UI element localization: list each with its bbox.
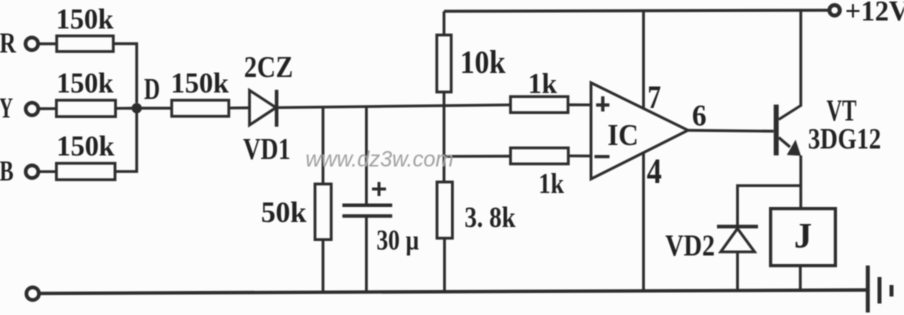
resistor R4 150k (series) — [172, 100, 229, 116]
wire pin 7 (V+ supply) — [642, 11, 645, 109]
ground symbol — [866, 266, 870, 313]
wire R4 to VD1 anode — [229, 106, 250, 109]
+12V top rail wire — [444, 10, 829, 11]
svg-text:150k: 150k — [57, 67, 115, 99]
wire R3 to bus — [115, 113, 137, 172]
svg-text:1k: 1k — [528, 68, 558, 100]
wire Y terminal to R2 — [38, 107, 56, 110]
transistor Q1 base bar — [774, 105, 779, 156]
wire capacitor bottom lead — [365, 216, 368, 292]
input terminal B — [26, 165, 39, 178]
capacitor C1 30u electrolytic — [342, 204, 392, 208]
resistor R9 1k (inverting input) — [511, 148, 569, 164]
svg-text:D: D — [144, 71, 160, 106]
wire emitter node to VD2 cathode branch — [738, 186, 801, 226]
diode VD1 2CZ — [250, 90, 277, 125]
resistor R7 3.8k — [437, 182, 452, 238]
op-amp minus input symbol — [595, 155, 610, 158]
wire capacitor top lead — [365, 107, 368, 206]
svg-text:4: 4 — [647, 151, 662, 191]
svg-text:IC: IC — [608, 117, 639, 152]
ground rail terminal (bottom left) — [26, 287, 39, 300]
+12V terminal — [829, 5, 839, 15]
ground rail wire — [39, 290, 866, 293]
resistor R3 150k (B input) — [56, 163, 115, 179]
wire 50k top lead — [322, 107, 325, 184]
resistor R5 50k — [315, 184, 331, 240]
wire R8 to op-amp + input — [568, 103, 591, 106]
wire R2 to node D — [116, 107, 137, 110]
input terminal R — [26, 38, 39, 51]
svg-text:+12V: +12V — [845, 0, 904, 27]
wire R1 to bus — [113, 44, 136, 103]
node D junction dot — [132, 103, 142, 113]
svg-text:VD2: VD2 — [665, 227, 715, 262]
svg-text:www.dz3w.com: www.dz3w.com — [306, 146, 454, 171]
capacitor polarity plus — [372, 182, 386, 196]
resistor R1 150k (R input) — [57, 36, 114, 52]
svg-text:6: 6 — [692, 98, 707, 133]
wire emitter down to relay — [799, 156, 802, 208]
wire 3.8k bottom lead — [443, 238, 446, 292]
svg-text:B: B — [0, 156, 14, 188]
input terminal Y — [26, 103, 39, 116]
svg-text:150k: 150k — [56, 4, 114, 36]
relay J box — [771, 209, 836, 266]
svg-text:3DG12: 3DG12 — [808, 122, 881, 155]
svg-text:50k: 50k — [261, 196, 307, 229]
svg-text:150k: 150k — [57, 131, 116, 163]
wire relay to ground rail — [799, 267, 802, 291]
wire R9 to op-amp - input — [568, 154, 591, 157]
svg-text:Y: Y — [0, 93, 13, 125]
wire 10k top lead from +12V rail — [443, 11, 446, 35]
wire divider vertical (10k to 3.8k, crosses signal wire) — [443, 92, 446, 182]
wire VD2 anode to ground rail — [736, 252, 739, 291]
svg-text:7: 7 — [648, 80, 662, 116]
resistor R8 1k (non-inverting input) — [511, 97, 569, 113]
wire 50k bottom lead — [322, 240, 325, 293]
resistor R6 10k — [437, 35, 451, 92]
svg-text:2CZ: 2CZ — [244, 50, 293, 84]
resistor R2 150k (Y input) — [56, 100, 115, 116]
wire node D to R4 — [137, 107, 172, 110]
wire divider tap to inverting input resistor — [444, 155, 511, 158]
wire R terminal to R1 — [38, 42, 57, 45]
wire pin 4 (V- supply to ground rail) — [642, 153, 645, 292]
op-amp U1 IC triangle — [591, 83, 688, 179]
svg-text:3. 8k: 3. 8k — [465, 201, 516, 234]
wire op-amp output pin 6 to transistor base — [688, 129, 774, 133]
svg-text:150k: 150k — [171, 68, 230, 100]
svg-text:10k: 10k — [460, 45, 506, 81]
transistor Q1 emitter with arrow — [779, 138, 790, 148]
wire VD1 cathode to op-amp input network — [277, 105, 511, 108]
svg-text:30 µ: 30 µ — [377, 224, 420, 256]
wire B terminal to R3 — [38, 170, 56, 173]
svg-text:J: J — [794, 216, 812, 256]
diode VD2 (protection, cathode up) — [717, 225, 758, 229]
op-amp plus input symbol — [596, 103, 609, 106]
svg-text:1k: 1k — [539, 168, 565, 200]
transistor Q1 collector — [779, 106, 801, 120]
svg-text:VD1: VD1 — [243, 131, 291, 166]
svg-text:R: R — [0, 28, 17, 60]
